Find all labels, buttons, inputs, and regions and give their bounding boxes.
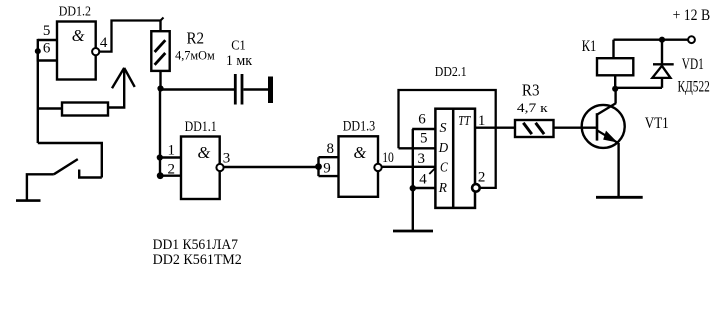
svg-text:VD1: VD1 <box>682 56 704 73</box>
svg-text:9: 9 <box>323 161 331 177</box>
svg-text:6: 6 <box>43 40 51 56</box>
node junction dot DD1.1 pin2 <box>157 172 164 179</box>
wire DD1.1 output to DD1.3 inputs <box>224 166 319 168</box>
pin 4 lead R <box>412 187 435 189</box>
svg-text:4: 4 <box>100 35 108 51</box>
wire tie S-R vertical <box>412 129 414 188</box>
wire C1 to touch plate <box>244 88 269 90</box>
switch SA1 <box>27 159 102 201</box>
wire junction to ground <box>412 188 414 231</box>
inversion bubble DD2.1 pin 2 <box>472 184 480 192</box>
svg-text:К1: К1 <box>582 38 597 55</box>
wire corner tick at R2 top <box>160 18 164 22</box>
svg-text:R: R <box>438 181 448 196</box>
movable lever <box>54 159 78 174</box>
svg-text:R2: R2 <box>187 29 205 48</box>
svg-text:8: 8 <box>327 141 335 157</box>
inversion bubble DD1.3 pin 10 <box>374 164 381 171</box>
wire DD1.2 output to R2 top <box>99 21 161 52</box>
wire feedback Q-bar to D <box>399 90 496 188</box>
pin 5 lead D <box>399 147 436 149</box>
svg-text:4,7мОм: 4,7мОм <box>175 48 215 62</box>
resistor R1 horizontal body <box>62 103 108 116</box>
svg-text:&: & <box>72 26 85 45</box>
ground at switch <box>16 199 41 202</box>
inversion bubble DD1.2 pin 4 <box>92 48 99 55</box>
svg-text:+ 12 В: + 12 В <box>673 7 711 24</box>
relay K1 coil <box>597 58 633 75</box>
node junction dot at DD1.2 pin6 <box>35 48 41 54</box>
svg-text:DD1.1: DD1.1 <box>185 119 217 135</box>
svg-text:10: 10 <box>382 150 394 166</box>
pin 1 lead Q output <box>476 126 515 128</box>
inversion bubble DD1.1 pin 3 <box>216 164 223 171</box>
svg-text:DD1.3: DD1.3 <box>343 119 376 135</box>
node junction dot DD1.3 tie <box>315 163 322 170</box>
pin 2 lead <box>160 174 181 176</box>
antenna sensor electrode E1 arrow head <box>112 68 135 88</box>
wire diode anode to junction <box>615 87 662 89</box>
resistor R2 body <box>151 31 169 71</box>
wire emitter down to ground <box>617 143 619 197</box>
svg-text:DD2.1: DD2.1 <box>435 64 467 79</box>
svg-text:3: 3 <box>418 151 426 167</box>
svg-text:&: & <box>198 143 211 162</box>
svg-text:1: 1 <box>478 113 486 129</box>
pin 6 lead <box>38 59 57 61</box>
pin 5 lead <box>38 39 57 41</box>
pin 9 lead <box>319 175 339 177</box>
wire relay bottom to junction <box>614 75 616 89</box>
+12V rail wire <box>614 39 689 41</box>
wire R1 left lead <box>38 107 62 109</box>
svg-text:4: 4 <box>419 172 427 188</box>
svg-text:DD2 К561ТМ2: DD2 К561ТМ2 <box>153 252 242 268</box>
R2 slash marks <box>155 40 166 65</box>
terminal +12V <box>688 36 695 43</box>
svg-text:5: 5 <box>420 130 428 146</box>
wire R3 to VT1 base <box>554 126 598 128</box>
wire to switch top <box>38 143 102 178</box>
svg-text:C1: C1 <box>231 37 246 52</box>
flip-flop DD2.1 body <box>435 109 475 208</box>
wire R1 right lead to sensor arrow <box>108 68 124 108</box>
ground at DD2.1 <box>393 230 433 233</box>
svg-text:&: & <box>354 143 367 162</box>
svg-text:2: 2 <box>478 170 486 186</box>
svg-text:6: 6 <box>418 112 426 128</box>
svg-text:3: 3 <box>223 150 231 166</box>
wire DD1.3 output to DD2.1 pin3 C input <box>382 166 436 168</box>
wire tie pins 8-9 vertical <box>317 157 319 176</box>
wire R2 bottom lead to junction <box>159 71 161 89</box>
svg-text:VT1: VT1 <box>645 114 669 132</box>
right contact hook <box>79 170 102 178</box>
svg-text:TT: TT <box>458 114 471 129</box>
wire tie pins 5-6 vertical <box>37 39 39 62</box>
node junction dot rail-diode <box>659 37 665 43</box>
pin 6 lead S <box>412 128 435 130</box>
svg-text:1 мк: 1 мк <box>226 53 253 69</box>
svg-text:4,7 к: 4,7 к <box>517 101 548 115</box>
wire R2 junction down to DD1.1 inputs <box>159 89 161 176</box>
svg-text:S: S <box>440 121 447 136</box>
wire collector up to relay junction <box>614 89 616 103</box>
svg-text:D: D <box>438 141 448 156</box>
node junction dot under R2 <box>157 85 163 91</box>
R3 slash marks <box>523 123 544 134</box>
svg-text:DD1.2: DD1.2 <box>59 4 91 19</box>
transistor Q1 : VT1 <box>582 103 625 148</box>
dynamic input slash on C <box>429 168 435 174</box>
wire relay top to +12V rail <box>612 40 614 59</box>
left terminal <box>27 174 54 200</box>
wire DD1.2 inputs down left side <box>37 51 39 143</box>
svg-text:1: 1 <box>168 143 176 159</box>
node junction dot DD2.1 pin4 <box>410 185 416 191</box>
pin 1 lead <box>160 156 181 158</box>
touch plate electrode bar <box>268 77 273 104</box>
ground at VT1 emitter <box>596 196 643 199</box>
resistor R3 body <box>515 120 554 137</box>
NAND gate DD1.2 <box>57 22 96 80</box>
wire R2 top lead <box>159 20 161 32</box>
diode VD1 <box>652 40 673 88</box>
node junction dot collector-relay-diode <box>612 86 618 92</box>
NAND gate DD1.3 body <box>339 136 379 197</box>
NAND gate DD1.1 body <box>181 137 220 200</box>
svg-text:DD1 К561ЛА7: DD1 К561ЛА7 <box>153 237 239 253</box>
pin 8 lead <box>319 156 339 158</box>
wire junction to C1 <box>161 88 235 90</box>
svg-text:5: 5 <box>43 23 51 39</box>
svg-text:R3: R3 <box>522 81 540 100</box>
svg-text:C: C <box>440 161 448 176</box>
capacitor C1 plates <box>235 74 242 105</box>
svg-text:2: 2 <box>168 162 176 178</box>
svg-text:КД522: КД522 <box>678 79 710 96</box>
node junction dot DD1.1 pin1 <box>157 154 163 160</box>
